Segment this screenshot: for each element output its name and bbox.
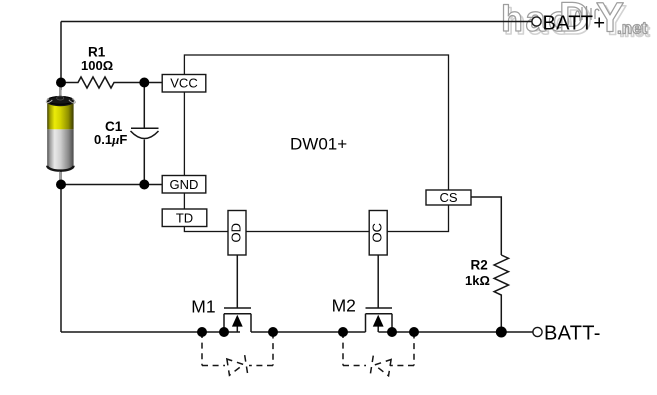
svg-text:CS: CS xyxy=(439,190,457,205)
svg-text:DW01+: DW01+ xyxy=(290,134,347,153)
wire M2 gate xyxy=(377,255,379,308)
svg-text:1kΩ: 1kΩ xyxy=(465,273,490,288)
svg-text:R2: R2 xyxy=(471,258,488,273)
node battery top xyxy=(56,78,66,88)
node R2 bottom xyxy=(496,327,507,338)
wire bottom rail segment 3 xyxy=(378,331,533,333)
svg-text:M1: M1 xyxy=(191,297,215,317)
svg-text:BATT+: BATT+ xyxy=(543,12,606,34)
battery B1 xyxy=(46,87,75,183)
pin box VCC xyxy=(162,75,206,93)
M1 body diode (dashed) xyxy=(202,332,273,376)
svg-text:TD: TD xyxy=(176,210,193,225)
wire left bus lower xyxy=(60,164,62,332)
node M2 diode right xyxy=(409,327,419,337)
svg-text:100Ω: 100Ω xyxy=(81,58,113,73)
node C1 top xyxy=(139,78,149,88)
svg-text:OD: OD xyxy=(229,223,244,243)
node M1 diode left xyxy=(197,327,207,337)
svg-text:BATT-: BATT- xyxy=(544,322,601,344)
terminal BATT+ xyxy=(532,17,541,26)
svg-text:.net: .net xyxy=(617,19,648,38)
M2 body diode (dashed) xyxy=(343,332,414,377)
pin box GND xyxy=(162,176,206,194)
node M1 diode right xyxy=(268,327,278,337)
svg-text:OC: OC xyxy=(370,223,385,243)
wire top rail BATT+ xyxy=(61,21,532,23)
node C1 bottom xyxy=(139,180,149,190)
svg-text:GND: GND xyxy=(170,177,199,192)
transistor M1 xyxy=(224,308,251,332)
pin box OD xyxy=(228,211,246,256)
node battery bottom xyxy=(56,180,66,190)
node M1 source xyxy=(219,327,229,337)
resistor R2 xyxy=(494,255,508,332)
wire CS to R2 xyxy=(471,197,501,255)
svg-text:0.1μF: 0.1μF xyxy=(94,132,127,147)
pin box CS xyxy=(426,190,471,205)
capacitor C1 upper lead xyxy=(143,83,145,129)
IC DW01+ outline xyxy=(184,55,448,232)
pin box TD xyxy=(162,209,207,227)
wire left bus upper xyxy=(60,22,62,91)
wire bottom rail segment 1 xyxy=(61,331,240,333)
terminal BATT- xyxy=(533,327,542,336)
watermark haoDIY.net xyxy=(501,0,650,43)
wire GND row xyxy=(61,184,162,186)
wire bottom rail segment 2 xyxy=(251,331,366,333)
pin box OC xyxy=(369,211,387,256)
capacitor C1 plates xyxy=(131,128,159,138)
svg-text:M2: M2 xyxy=(332,296,356,316)
svg-text:VCC: VCC xyxy=(170,76,197,91)
wire M1 gate xyxy=(236,255,238,308)
transistor M2 xyxy=(366,308,393,332)
node M2 source xyxy=(387,327,397,337)
capacitor C1 lower lead xyxy=(143,140,145,185)
resistor R1 xyxy=(61,77,162,88)
node M2 diode left xyxy=(338,327,348,337)
